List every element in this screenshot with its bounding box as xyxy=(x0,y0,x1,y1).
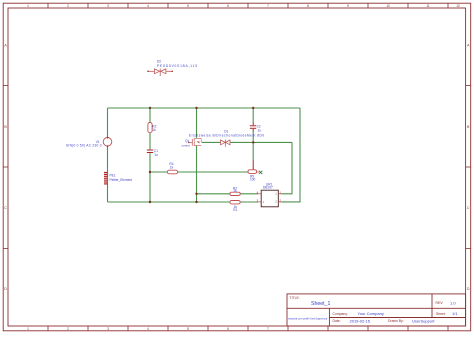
svg-text:1: 1 xyxy=(27,327,29,331)
svg-text:5: 5 xyxy=(187,4,189,8)
frame column numbers bottom xyxy=(27,327,269,331)
junction node top rail / Q1 column xyxy=(195,107,197,109)
svg-text:3: 3 xyxy=(107,327,109,331)
svg-text:UserSupport: UserSupport xyxy=(412,318,435,323)
svg-text:DB107: DB107 xyxy=(263,185,273,189)
svg-text:2: 2 xyxy=(67,4,69,8)
title block outline xyxy=(287,294,466,326)
wire left column lower xyxy=(107,146,109,202)
svg-text:Peltier_Element: Peltier_Element xyxy=(110,178,133,182)
transistor Q1 xyxy=(188,138,201,146)
wire R2/C1 column middle xyxy=(149,133,151,150)
wire bottom rail xyxy=(108,201,230,203)
svg-text:6: 6 xyxy=(227,4,229,8)
frame ruler ticks bottom xyxy=(48,326,448,331)
svg-text:C: C xyxy=(467,206,470,210)
svg-text:1k: 1k xyxy=(233,189,237,193)
peltier element PE1 xyxy=(104,172,107,185)
TVS diode D1 xyxy=(221,140,230,147)
frame ruler ticks top xyxy=(48,3,448,8)
svg-text:Your Company: Your Company xyxy=(358,311,384,316)
junction node top rail / C2 column xyxy=(252,107,254,109)
junction node bottom rail / Q1 column xyxy=(195,201,197,203)
svg-text:8: 8 xyxy=(307,4,309,8)
svg-text:1u: 1u xyxy=(257,128,261,132)
wire Q1 column lower xyxy=(196,146,198,202)
svg-text:12: 12 xyxy=(456,4,460,8)
wire C2 column upper xyxy=(252,108,254,123)
svg-text:6: 6 xyxy=(227,327,229,331)
svg-text:PE1: PE1 xyxy=(110,173,116,177)
svg-text:9: 9 xyxy=(347,4,349,8)
svg-text:Sheet:: Sheet: xyxy=(436,312,446,316)
wire R2/C1 column lower xyxy=(149,153,151,202)
wire R2 row (gate row) xyxy=(197,193,230,195)
wire D1 to right inner vertical xyxy=(230,141,292,143)
frame row letters left xyxy=(4,44,7,292)
svg-text:TITLE:: TITLE: xyxy=(290,296,300,300)
resistor R2 (horizontal, gate) xyxy=(230,192,240,195)
capacitor C1 xyxy=(147,150,153,154)
svg-text:Company:: Company: xyxy=(333,312,349,316)
svg-text:7: 7 xyxy=(267,4,269,8)
svg-text:SIN(0 0 50) AC 230 0: SIN(0 0 50) AC 230 0 xyxy=(66,143,102,147)
junction node bottom rail / C1 column xyxy=(149,201,151,203)
frame ruler ticks right xyxy=(466,86,471,249)
svg-text:3: 3 xyxy=(107,4,109,8)
svg-text:1k: 1k xyxy=(152,128,156,132)
junction node top rail / R2 column xyxy=(149,107,151,109)
svg-text:Date:: Date: xyxy=(333,319,341,323)
junction node R2 row / Q1 column xyxy=(195,193,197,195)
bridge rectifier UR1 xyxy=(257,190,282,207)
svg-text:REV:: REV: xyxy=(436,301,444,305)
svg-text:5: 5 xyxy=(187,327,189,331)
resistor R4 (horizontal) xyxy=(167,170,177,174)
svg-text:Sheet_1: Sheet_1 xyxy=(311,301,330,307)
wire R2 to UR1 pin 4 xyxy=(240,193,258,195)
wire R4 row left xyxy=(150,171,167,173)
svg-text:10: 10 xyxy=(386,4,390,8)
wire right inner vertical (to UR1 pin 1) xyxy=(282,142,293,193)
svg-text:7: 7 xyxy=(267,327,269,331)
wire C2 column lower to R5 wiper xyxy=(252,131,254,161)
wire left column (V1 / PE1 branch) xyxy=(107,108,109,138)
svg-text:easyeda.com-profile-UserSuppor: easyeda.com-profile-UserSupport-prj xyxy=(288,318,328,321)
wire R2/C1 column upper xyxy=(149,108,151,123)
wire top rail xyxy=(108,107,301,109)
TVS diode D2 (floating, top) xyxy=(147,69,173,77)
frame column numbers top xyxy=(27,4,460,8)
resistor R1 xyxy=(230,201,240,204)
svg-text:1: 1 xyxy=(27,4,29,8)
wire bottom rail right of R1 xyxy=(240,201,258,203)
potentiometer R5 xyxy=(248,161,262,175)
frame row letters right xyxy=(467,44,470,292)
voltage source V1 xyxy=(103,137,112,147)
svg-text:C: C xyxy=(4,206,7,210)
wire right outer vertical (top rail to UR1 pin 2) xyxy=(282,108,301,202)
junction node R4 row / C1 column xyxy=(149,171,151,173)
svg-text:100: 100 xyxy=(250,178,256,182)
resistor R2 (vertical) xyxy=(148,123,152,133)
svg-text:1u: 1u xyxy=(154,153,158,157)
svg-text:oment: oment xyxy=(182,144,191,148)
junction node D1 row / C2 column xyxy=(252,141,254,143)
svg-text:R1: R1 xyxy=(233,208,237,212)
svg-text:Ersatzweise BiDirectionalDiode: Ersatzweise BiDirectionalDiodeMent 8D0 xyxy=(189,134,264,138)
svg-text:2019-02-15: 2019-02-15 xyxy=(350,318,371,323)
svg-text:PESD5V0S1BA,115: PESD5V0S1BA,115 xyxy=(157,64,197,68)
svg-text:D: D xyxy=(467,287,470,291)
frame ruler ticks left xyxy=(3,86,8,249)
capacitor C2 xyxy=(250,123,256,132)
svg-text:4: 4 xyxy=(147,327,149,331)
svg-text:D: D xyxy=(4,287,7,291)
svg-text:2: 2 xyxy=(67,327,69,331)
svg-text:1.0: 1.0 xyxy=(450,300,456,305)
svg-text:1k: 1k xyxy=(170,166,174,170)
wire Q1 to D1 xyxy=(202,141,220,143)
svg-text:Drawn By:: Drawn By: xyxy=(388,319,404,323)
svg-text:Q1: Q1 xyxy=(185,139,189,143)
svg-text:11: 11 xyxy=(426,4,430,8)
wire R4 row right to R5 xyxy=(178,171,248,173)
svg-text:1/1: 1/1 xyxy=(452,311,458,316)
svg-text:4: 4 xyxy=(147,4,149,8)
wire Q1 column upper xyxy=(196,108,198,138)
